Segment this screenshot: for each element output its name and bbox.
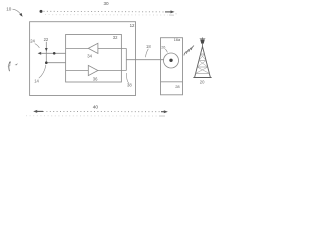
svg-text:30: 30 <box>104 1 110 6</box>
svg-text:32: 32 <box>113 35 118 40</box>
svg-text:28: 28 <box>175 84 180 89</box>
label 36 <box>93 76 98 81</box>
antenna tower 20 <box>193 37 211 77</box>
leader arrow from 10 <box>13 9 23 17</box>
wire output to antenna box <box>126 59 163 61</box>
svg-text:36: 36 <box>93 76 98 81</box>
label 40 <box>93 104 99 110</box>
label 16a <box>174 38 181 42</box>
wire port lower horizontal <box>46 62 65 64</box>
label 14 <box>34 78 39 83</box>
wire faint echo of arrow 40 <box>26 115 165 117</box>
wire from amp 34 right <box>98 47 126 49</box>
antenna element circle 26 <box>164 53 179 68</box>
wire divider in box 16 <box>161 81 183 83</box>
svg-text:16a: 16a <box>174 38 181 42</box>
wire 22 vertical with down arrow <box>45 42 48 63</box>
radiation waves <box>184 46 194 56</box>
op-amp 36 (right pointing amplifier) <box>88 65 98 75</box>
label 12 <box>130 23 135 28</box>
node start dot of arrow 30 <box>40 10 43 13</box>
wire from amp 36 right <box>98 70 126 72</box>
label 38 <box>127 82 132 87</box>
leader from 26 <box>165 49 167 52</box>
leader from 38 <box>126 73 128 83</box>
label 24 <box>30 38 35 43</box>
svg-text:18: 18 <box>146 44 151 49</box>
wire faint echo of arrow 30 <box>45 14 174 16</box>
svg-text:24: 24 <box>30 38 35 43</box>
annotation mark left margin <box>8 62 18 71</box>
leader from 18 <box>146 49 149 57</box>
wire to amp 34 input left <box>66 47 89 49</box>
svg-text:10: 10 <box>6 6 12 11</box>
dashed signal arrow 40 <box>33 110 168 113</box>
label 18 <box>146 44 151 49</box>
label 30 <box>104 1 110 6</box>
wire right bus vertical <box>125 48 127 70</box>
leader from 24 <box>35 44 40 48</box>
label 20 <box>200 80 205 85</box>
label 34 <box>87 54 92 59</box>
dashed signal arrow 30 <box>44 10 179 14</box>
svg-text:22: 22 <box>44 37 49 42</box>
op-amp 34 (left pointing amplifier) <box>88 43 98 53</box>
node junction dot upper <box>53 52 56 55</box>
svg-text:40: 40 <box>93 104 99 110</box>
label 10 <box>6 6 12 11</box>
box 12 (repeater unit) <box>30 22 136 96</box>
svg-text:12: 12 <box>130 23 135 28</box>
box 16 (antenna unit) <box>161 38 183 95</box>
label 22 <box>44 37 49 42</box>
node junction dot lower <box>45 61 48 64</box>
label 28 <box>175 84 180 89</box>
svg-text:14: 14 <box>34 78 39 83</box>
svg-text:34: 34 <box>87 54 92 59</box>
label 26 <box>161 46 165 50</box>
svg-text:20: 20 <box>200 80 205 85</box>
leader from 14 <box>39 65 46 78</box>
box 32 (amplifier unit) <box>66 35 122 83</box>
wire to amp 36 input left <box>66 70 89 72</box>
svg-text:38: 38 <box>127 82 132 87</box>
svg-text:26: 26 <box>161 46 165 50</box>
wire port upper horizontal with left arrow <box>38 52 66 55</box>
label 32 <box>113 35 118 40</box>
